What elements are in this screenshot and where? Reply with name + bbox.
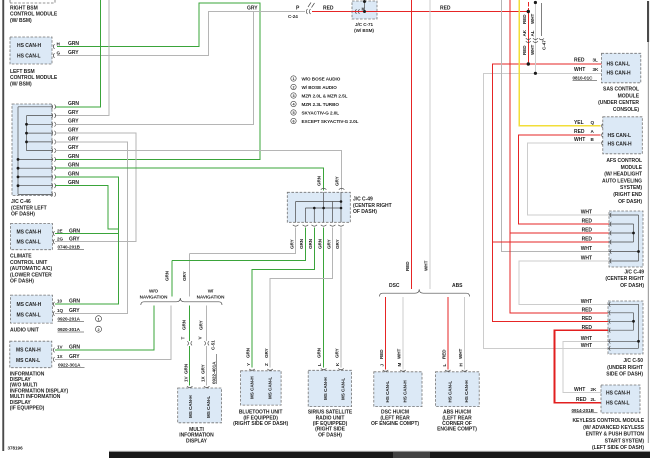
svg-text:1: 1 [292, 77, 294, 81]
svg-text:J/C C-49: J/C C-49 [624, 269, 644, 275]
wire WHT loop SAS 3K line to J/C C-50 pin6 [484, 73, 609, 348]
svg-text:W/O: W/O [149, 289, 159, 294]
legend note 5 [291, 110, 339, 116]
pin G [53, 53, 54, 58]
svg-text:KEYLESS CONTROL MODULE: KEYLESS CONTROL MODULE [572, 418, 644, 424]
svg-text:MS CAN-L: MS CAN-L [268, 377, 273, 399]
junction connector J/C C-50 box [608, 301, 643, 354]
svg-text:START SYSTEM): START SYSTEM) [605, 438, 645, 444]
svg-text:EXCEPT SKYACTIV-G 2.0L: EXCEPT SKYACTIV-G 2.0L [302, 119, 359, 124]
svg-text:RED: RED [582, 218, 593, 224]
wire RED bold C-50 pin4 to keyless 2L [554, 330, 608, 403]
svg-text:GRY: GRY [264, 348, 269, 358]
svg-text:2: 2 [292, 86, 294, 90]
svg-text:GRY: GRY [198, 320, 203, 330]
svg-text:C-24: C-24 [288, 14, 298, 19]
svg-text:T: T [181, 337, 186, 340]
connector C-24 break marks [308, 3, 315, 8]
bluetooth box [241, 371, 282, 405]
svg-text:OF DASH): OF DASH) [618, 199, 642, 205]
svg-text:MS CAN-H: MS CAN-H [188, 395, 193, 418]
svg-text:W/O BOSE AUDIO: W/O BOSE AUDIO [302, 77, 341, 82]
svg-text:378196: 378196 [8, 446, 24, 451]
svg-text:RED: RED [379, 349, 384, 359]
svg-text:3L: 3L [593, 58, 599, 63]
svg-text:RED: RED [582, 236, 593, 242]
climate pin 2E [53, 231, 54, 236]
wire WHT vertical from top to DSC/ABS brace [429, 0, 431, 289]
legend note 6 [291, 118, 359, 124]
svg-text:GRY: GRY [247, 6, 258, 12]
svg-text:HS CAN-L: HS CAN-L [17, 54, 41, 60]
wire GRY W/NAV branch through C-51 to MID [206, 306, 208, 386]
svg-text:RED: RED [522, 45, 527, 55]
svg-text:GRN: GRN [308, 238, 313, 249]
junction connector J/C C-71 box [352, 1, 377, 19]
svg-text:AUDIO UNIT: AUDIO UNIT [10, 328, 39, 334]
svg-text:ENGINE COMPT): ENGINE COMPT) [437, 427, 477, 433]
J/C C-46 pin chevrons [52, 105, 56, 197]
svg-text:C-47: C-47 [542, 40, 547, 50]
wire GRN climate 2E tap [55, 233, 118, 235]
svg-text:WHT: WHT [397, 348, 402, 359]
wire GRY row 3 from C-24 gray vertical [55, 12, 254, 125]
svg-text:OF ENGINE COMPT): OF ENGINE COMPT) [371, 421, 419, 427]
svg-text:1X: 1X [57, 354, 64, 359]
svg-text:MS CAN-L: MS CAN-L [341, 378, 346, 400]
svg-text:MS CAN-H: MS CAN-H [17, 302, 42, 308]
legend note 1 [291, 76, 341, 82]
right window edge bar dark top [647, 1, 649, 42]
svg-text:CONTROL UNIT: CONTROL UNIT [10, 260, 47, 266]
svg-text:6: 6 [292, 120, 294, 124]
svg-text:2K: 2K [591, 387, 598, 392]
multi information display box [178, 388, 222, 423]
svg-text:C-51: C-51 [211, 340, 216, 350]
svg-text:WHT: WHT [581, 255, 592, 261]
svg-text:(IF EQUIPPED): (IF EQUIPPED) [10, 406, 45, 412]
wire GRN HS CAN-H to C-24 net (up and over) [55, 3, 260, 159]
svg-text:GRN: GRN [317, 238, 322, 249]
junction dot on red wire [363, 10, 366, 13]
sirius pin arcs [321, 369, 344, 370]
svg-text:RIGHT BSM: RIGHT BSM [10, 6, 38, 12]
svg-text:(RIGHT END: (RIGHT END [613, 192, 642, 198]
svg-text:HS CAN-H: HS CAN-H [464, 380, 469, 403]
audio pin 10 [53, 302, 54, 307]
svg-text:(W/ BSM): (W/ BSM) [10, 81, 32, 87]
wire GRY C-49 pin5 to bluetooth Z [270, 228, 333, 368]
legend note 4 [291, 101, 340, 107]
C-49 internal wiring [296, 192, 341, 222]
svg-text:OF DASH): OF DASH) [318, 432, 342, 438]
svg-text:GRY: GRY [335, 348, 340, 358]
svg-text:LEFT BSM: LEFT BSM [10, 69, 35, 75]
svg-text:WHT: WHT [581, 343, 592, 349]
svg-text:HS CAN-H: HS CAN-H [606, 391, 631, 397]
svg-text:(W/ ADVANCED KEYLESS: (W/ ADVANCED KEYLESS [583, 425, 645, 431]
svg-text:GRN: GRN [68, 154, 79, 160]
svg-text:CLIMATE: CLIMATE [10, 254, 32, 260]
wire GRN C-49 pin3 to bluetooth Y [252, 228, 314, 368]
svg-text:OF DASH): OF DASH) [10, 279, 34, 285]
wire GRY C-49 pin6 to sirius K [340, 228, 342, 368]
wire GRY from top edge into J/C C-46 row 2 [55, 0, 109, 116]
wire RED DSC branch [385, 297, 387, 370]
svg-text:1V: 1V [57, 345, 64, 350]
svg-text:CONTROL MODULE: CONTROL MODULE [10, 75, 58, 81]
svg-text:GRN: GRN [68, 41, 79, 47]
svg-text:(W/ BSM): (W/ BSM) [10, 18, 32, 24]
svg-text:J/C C-46: J/C C-46 [11, 199, 31, 205]
svg-text:MS CAN-H: MS CAN-H [17, 230, 42, 236]
wire RED J/C C-71 to junction at x528 [377, 11, 527, 13]
ABS box [436, 372, 480, 407]
svg-text:MS CAN-L: MS CAN-L [17, 313, 41, 319]
svg-text:NAVIGATION: NAVIGATION [197, 295, 225, 300]
svg-text:GRY: GRY [182, 271, 187, 281]
pin K arrow [355, 9, 359, 14]
climate control unit MS CAN box [11, 224, 53, 250]
svg-text:OF DASH): OF DASH) [11, 212, 35, 218]
wire RED loop SAS 3L line to J/C C-50 pin3 [492, 64, 608, 321]
wire RED ABS branch [447, 297, 449, 370]
svg-text:GRN: GRN [165, 270, 170, 281]
wire GRY row 4 to climate 2G [55, 133, 136, 242]
wire WHT C-49r pin6 down to C-50 pin1 [519, 261, 609, 304]
svg-text:RED: RED [574, 58, 585, 64]
SAS pin arcs [602, 62, 603, 76]
svg-text:GRN: GRN [317, 347, 322, 358]
svg-text:1X GRY: 1X GRY [200, 364, 205, 382]
svg-text:0920-301A: 0920-301A [58, 327, 81, 332]
svg-text:HS CAN-L: HS CAN-L [447, 381, 452, 403]
DSC pin arcs [383, 370, 406, 371]
keyless pin arcs [602, 390, 603, 405]
svg-text:RED: RED [405, 261, 410, 271]
svg-text:J/C C-50: J/C C-50 [623, 358, 643, 364]
wire GRN C-49 pin2 to brace GRN [172, 228, 305, 261]
svg-text:3: 3 [292, 94, 294, 98]
svg-text:GRY: GRY [335, 239, 340, 249]
svg-text:GRN: GRN [181, 319, 186, 330]
wire GRN row 10 drop joining row 9 vertical [55, 186, 118, 229]
svg-text:WHT: WHT [574, 137, 585, 143]
junction connector J/C C-49 right box [609, 211, 643, 267]
svg-text:(LOWER CENTER: (LOWER CENTER [10, 272, 52, 278]
svg-text:RED: RED [522, 14, 527, 24]
svg-text:W/ BOSE AUDIO: W/ BOSE AUDIO [302, 85, 338, 90]
svg-text:DSC: DSC [389, 283, 400, 289]
svg-text:GRN: GRN [246, 347, 251, 358]
svg-text:G: G [57, 51, 61, 56]
svg-text:2E: 2E [57, 228, 63, 233]
wire GRY row 5 to audio 1Q [55, 142, 127, 314]
svg-text:Y: Y [246, 363, 251, 366]
svg-text:WHT: WHT [574, 67, 585, 73]
svg-text:RED: RED [574, 129, 585, 135]
wire GRY pair down into brace [189, 254, 191, 297]
svg-text:SKYACTIV-G 2.0L: SKYACTIV-G 2.0L [302, 111, 340, 116]
wire GRY info display 1X from W/O NAV branch [55, 306, 171, 360]
svg-text:WHT: WHT [530, 44, 535, 55]
svg-text:DISPLAY: DISPLAY [186, 438, 208, 444]
C-50 internal dots [632, 320, 635, 323]
bluetooth pin arcs [249, 369, 273, 370]
C-49 internal dots [313, 207, 316, 210]
svg-text:J/C C-49: J/C C-49 [353, 197, 373, 203]
svg-text:OF DASH): OF DASH) [620, 283, 644, 289]
svg-text:GRY: GRY [289, 239, 294, 249]
svg-text:GRY: GRY [69, 236, 80, 242]
svg-text:(UNDER RIGHT: (UNDER RIGHT [607, 365, 643, 371]
pin H [53, 44, 54, 49]
svg-text:(LEFT SIDE OF DASH): (LEFT SIDE OF DASH) [592, 445, 644, 451]
svg-text:HS CAN-H: HS CAN-H [403, 380, 408, 403]
wire WHT C-50 pin5 to keyless 2K [563, 341, 608, 392]
wire RED vertical from top to DSC/ABS brace [411, 0, 413, 289]
junction dot wht top [534, 1, 537, 4]
svg-text:WHT: WHT [581, 246, 592, 252]
svg-text:GRY: GRY [68, 50, 79, 56]
svg-text:CONTROL MODULE: CONTROL MODULE [10, 12, 58, 18]
svg-text:Q: Q [591, 120, 595, 125]
J/C C-46 internal green bus [18, 107, 52, 195]
junction connector J/C C-46 box [12, 104, 52, 196]
C-49r pin arcs [610, 213, 611, 264]
connector C-24 arcs [306, 9, 310, 14]
svg-text:AUTO LEVELING: AUTO LEVELING [602, 178, 642, 184]
svg-text:MODULE: MODULE [621, 165, 643, 171]
wire WHT AFS B loop to C-49r pin1 [528, 143, 610, 215]
wire GRY C-49 pin1 to brace GRY [190, 228, 296, 254]
right window edge thin line [648, 42, 649, 443]
MID pin arcs [187, 386, 210, 387]
svg-text:WHT: WHT [424, 260, 429, 271]
right BSM control module (cut-off box bottom edge) [10, 0, 55, 3]
wire GRN W/NAV branch through C-51 to MID [189, 306, 191, 386]
wire GRN pair down into brace [171, 260, 173, 296]
svg-text:MS CAN-L: MS CAN-L [16, 358, 40, 364]
audio pin 1Q [53, 311, 54, 316]
svg-text:HS CAN-L: HS CAN-L [606, 401, 630, 407]
svg-text:0810-01C: 0810-01C [573, 75, 594, 80]
wire RED AFS A loop to C-49r pin2 [519, 135, 609, 224]
C-49 bottom pin arcs [293, 225, 344, 226]
svg-text:MS CAN-H: MS CAN-H [250, 376, 255, 399]
svg-text:MZR 2.0L & MZR 2.5L: MZR 2.0L & MZR 2.5L [302, 94, 348, 99]
svg-text:2G: 2G [57, 236, 64, 241]
svg-text:WHT: WHT [574, 387, 585, 393]
connector C-51 arcs on T [187, 341, 192, 345]
svg-text:HS CAN-L: HS CAN-L [607, 61, 631, 67]
svg-text:GRN: GRN [68, 101, 79, 107]
svg-text:GRY: GRY [69, 308, 80, 314]
svg-text:HS CAN-L: HS CAN-L [385, 381, 390, 403]
svg-text:HS CAN-H: HS CAN-H [608, 141, 633, 147]
legend note 3 [291, 93, 348, 99]
svg-text:J/C C-71: J/C C-71 [355, 22, 374, 27]
svg-text:WHT: WHT [458, 348, 463, 359]
sirius box [308, 370, 351, 406]
svg-text:RED: RED [582, 307, 593, 313]
svg-text:L: L [442, 364, 447, 367]
junction dot red at SAS line [527, 62, 530, 65]
svg-text:2L: 2L [591, 397, 597, 402]
svg-text:WHT: WHT [530, 13, 535, 24]
wire RED C-47 AK drop [527, 2, 529, 64]
svg-text:MS CAN-L: MS CAN-L [206, 396, 211, 418]
svg-text:(CENTER RIGHT: (CENTER RIGHT [605, 276, 644, 282]
wire RED C-24 to J/C C-71 [312, 11, 352, 13]
navigation option brace [141, 298, 222, 305]
C-49r internal wiring [609, 215, 639, 261]
svg-text:GRN: GRN [317, 175, 322, 186]
svg-text:YEL: YEL [574, 120, 584, 126]
SAS control module box [602, 53, 641, 83]
svg-text:HS CAN-H: HS CAN-H [607, 71, 632, 77]
left window edge bar [2, 0, 4, 451]
svg-text:SYSTEM): SYSTEM) [620, 185, 642, 191]
wire GRN from top edge into J/C C-46 row 1 [55, 0, 101, 107]
wire RED branch to J/C C-49r pin4 [492, 241, 609, 243]
info display pin 1X [53, 357, 54, 362]
C-49 top pin arcs [321, 188, 345, 189]
svg-text:GRN: GRN [69, 228, 80, 234]
svg-text:(AUTOMATIC A/C): (AUTOMATIC A/C) [10, 266, 52, 272]
svg-text:3K: 3K [593, 67, 600, 72]
connector C-47 frame line [539, 3, 544, 40]
svg-text:(CENTER RIGHT: (CENTER RIGHT [353, 203, 392, 209]
DSC box [374, 372, 422, 407]
audio unit MS CAN box [11, 295, 53, 323]
wire GRN row 8 to J/C C-49 top pin 1 [55, 168, 324, 190]
svg-text:0922-301A: 0922-301A [58, 363, 81, 368]
connector C-47 arcs on wht line [533, 38, 538, 42]
scrollbar thumb [393, 452, 430, 458]
wire WHT C-47 AL drop [534, 3, 536, 74]
svg-text:0920-201A: 0920-201A [58, 317, 81, 322]
svg-text:MZR 2.3L TURBO: MZR 2.3L TURBO [302, 102, 340, 107]
svg-text:GRY: GRY [68, 119, 79, 125]
svg-text:RED: RED [442, 349, 447, 359]
svg-text:1: 1 [97, 317, 99, 321]
svg-text:HS CAN-L: HS CAN-L [608, 133, 632, 139]
junction dot wht at SAS line [534, 72, 537, 75]
svg-text:SAS CONTROL: SAS CONTROL [603, 87, 639, 93]
svg-text:AL: AL [530, 30, 535, 36]
svg-text:(CENTER LEFT: (CENTER LEFT [11, 205, 47, 211]
svg-text:ENTRY & PUSH BUTTON: ENTRY & PUSH BUTTON [586, 432, 645, 438]
bottom light strip [109, 450, 650, 451]
info display pin 1V [53, 348, 54, 353]
svg-text:RED: RED [582, 227, 593, 233]
svg-text:HS CAN-H: HS CAN-H [17, 43, 42, 49]
svg-text:CONSOLE): CONSOLE) [613, 107, 639, 113]
wire GRN C-49 pin4 to sirius L [323, 228, 325, 368]
svg-text:1Q: 1Q [57, 308, 64, 313]
svg-text:(UNDER CENTER: (UNDER CENTER [598, 100, 639, 106]
wire WHT DSC branch [402, 297, 404, 370]
wire RED through J/C C-71 [352, 11, 377, 13]
J/C C-46 internal gray bus [27, 116, 53, 151]
svg-text:W/: W/ [208, 289, 214, 294]
svg-text:WHT: WHT [581, 299, 592, 305]
AFS pin arcs [602, 124, 603, 146]
wire GRN info display 1V from W/O NAV branch [55, 306, 154, 351]
svg-text:5: 5 [292, 111, 294, 115]
connector C-47 arcs on red line [526, 38, 531, 42]
C-49r internal dots [632, 232, 635, 235]
svg-text:AK: AK [522, 29, 527, 36]
C-50 pin arcs [609, 302, 610, 351]
junction dot red at J/C C-71 line [527, 10, 530, 13]
svg-text:1V GRN: 1V GRN [183, 363, 188, 382]
wire WHT ABS branch [464, 297, 466, 370]
wire YEL vertical to AFS pin Q [519, 0, 600, 126]
J/C C-46 bus junction dots [25, 123, 28, 126]
svg-text:MODULE: MODULE [618, 93, 640, 99]
DSC/ABS distribution brace [380, 289, 470, 296]
svg-text:WHT: WHT [581, 209, 592, 215]
wire GRY vertical from top to J/C C-49r pin5 [502, 0, 610, 252]
bottom black scrollbar [109, 452, 650, 458]
wire RED branch to J/C C-49r pin3 [510, 232, 609, 234]
svg-text:RED: RED [323, 6, 334, 12]
internal stub to top pin [364, 1, 366, 12]
svg-text:Z: Z [264, 363, 269, 366]
svg-text:0740-201B: 0740-201B [58, 244, 81, 249]
junction dot top [363, 0, 366, 3]
svg-text:GRN: GRN [69, 299, 80, 305]
information display MS CAN box [10, 341, 52, 368]
climate pin 2G [53, 239, 54, 244]
svg-text:0922-401A: 0922-401A [212, 361, 217, 384]
svg-text:AFS CONTROL: AFS CONTROL [606, 158, 642, 164]
svg-text:10: 10 [57, 299, 63, 304]
junction connector J/C C-49 box [287, 192, 350, 222]
svg-text:OF DASH): OF DASH) [353, 209, 377, 215]
connector C-51 arcs on V [204, 341, 209, 345]
svg-text:M: M [397, 363, 402, 367]
svg-text:RED: RED [440, 6, 451, 12]
svg-text:NAVIGATION: NAVIGATION [140, 295, 168, 300]
svg-text:2: 2 [97, 328, 99, 332]
svg-text:MS CAN-H: MS CAN-H [16, 348, 41, 354]
svg-text:0914-201B: 0914-201B [572, 408, 595, 413]
C-50 internal wiring [608, 304, 639, 348]
svg-text:MS CAN-H: MS CAN-H [323, 377, 328, 400]
svg-text:(RIGHT SIDE OF DASH): (RIGHT SIDE OF DASH) [233, 421, 288, 427]
svg-text:MS CAN-L: MS CAN-L [17, 240, 41, 246]
ABS pin arcs [445, 370, 467, 371]
svg-text:RED: RED [576, 397, 587, 403]
wire RED vertical from top to J/C C-50 pin2 [510, 0, 608, 313]
wire GRY HS CAN-L to C-24 [57, 12, 305, 56]
svg-text:GRN: GRN [299, 238, 304, 249]
wire GRN row 9 down to audio 10 [55, 177, 118, 304]
svg-text:L: L [317, 363, 322, 366]
svg-text:RED: RED [582, 316, 593, 322]
svg-text:GRY: GRY [326, 239, 331, 249]
left BSM HS CAN connector box [10, 37, 52, 64]
svg-text:GRY: GRY [68, 110, 79, 116]
svg-text:(W/ HEADLIGHT: (W/ HEADLIGHT [604, 172, 642, 178]
wire GRY row 6 to J/C C-49 top pin 2 [55, 151, 342, 191]
legend note 2 [291, 84, 337, 90]
keyless control module box [601, 385, 640, 413]
svg-text:SIDE OF DASH): SIDE OF DASH) [606, 372, 643, 378]
